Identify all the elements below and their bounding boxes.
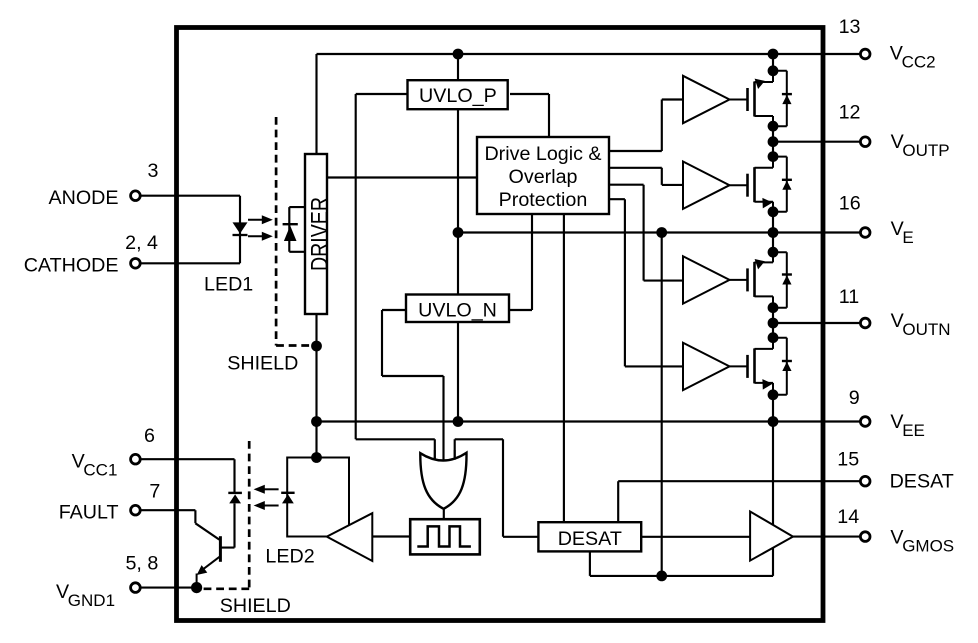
- svg-text:3: 3: [148, 160, 159, 182]
- svg-text:UVLO_P: UVLO_P: [419, 85, 497, 107]
- svg-text:DESAT: DESAT: [890, 470, 954, 492]
- UVLO_P box: [408, 80, 508, 109]
- wire UVLO_P right to Drive Logic top: [510, 94, 549, 137]
- svg-text:Protection: Protection: [499, 189, 588, 211]
- wire DESAT box top to DESAT pin: [618, 481, 859, 522]
- buffer B1: [683, 76, 730, 123]
- svg-text:ANODE: ANODE: [48, 187, 118, 209]
- wire ANODE loop with LED1: [141, 196, 240, 264]
- wire VEE rail y=421.5: [317, 420, 860, 422]
- DRIVER box: [305, 154, 333, 314]
- svg-text:5, 8: 5, 8: [125, 553, 158, 575]
- buffer B3: [683, 256, 730, 303]
- wire VE branch down x=661.7: [661, 233, 663, 576]
- svg-text:CATHODE: CATHODE: [24, 255, 119, 277]
- wire VE rail y=232.5: [458, 231, 860, 233]
- MOSFET Q3 (P-ch): [730, 252, 792, 308]
- svg-text:SHIELD: SHIELD: [220, 595, 291, 617]
- MOSFET Q1 (P-ch top): [730, 71, 792, 126]
- wire pulse box to LED2 buffer: [372, 535, 410, 537]
- svg-text:12: 12: [839, 101, 861, 123]
- wire VOUTP rail: [773, 141, 860, 143]
- svg-text:DRIVER: DRIVER: [306, 197, 334, 271]
- shield dashed line upper: [276, 117, 312, 346]
- svg-text:SHIELD: SHIELD: [227, 353, 298, 375]
- wire DESAT box to buffer5: [641, 536, 750, 538]
- buffer B5 DESAT output: [750, 512, 793, 561]
- svg-text:OUTN: OUTN: [902, 320, 950, 339]
- wire UVLO_N left to OR gate: [382, 310, 444, 461]
- UVLO_N box: [406, 295, 509, 323]
- photodiode D2 (left of shield, fault channel): [228, 493, 242, 504]
- wire DRIVER out to Drive Logic: [327, 176, 477, 178]
- buffer B2: [683, 162, 730, 209]
- wire DRIVER top stem: [315, 54, 317, 154]
- wire DESAT path to OR gate right input: [455, 439, 539, 537]
- wire Drive Logic bottom to UVLO_N right: [509, 214, 532, 310]
- wire VEE branch down x=773: [772, 422, 774, 576]
- svg-text:6: 6: [144, 425, 155, 447]
- LED2 driver buffer (points left): [327, 513, 373, 561]
- svg-text:2, 4: 2, 4: [125, 232, 158, 254]
- pin circles left: [131, 191, 141, 201]
- wire VOUTN rail: [773, 322, 860, 324]
- pulse generator box: [410, 519, 480, 554]
- wire UVLO vertical x=458: [457, 54, 459, 422]
- phototransistor Q5: [197, 536, 221, 587]
- wire DRIVER bottom stem to LED2 box: [315, 314, 317, 458]
- LED2 arrows (point left): [254, 485, 279, 510]
- svg-text:E: E: [902, 228, 913, 247]
- svg-text:15: 15: [837, 449, 859, 471]
- svg-text:16: 16: [839, 192, 861, 214]
- MOSFET Q2 (N-ch): [730, 157, 792, 212]
- LED2 diode on box left edge: [281, 493, 294, 504]
- wire VGND1: [141, 587, 197, 589]
- svg-text:UVLO_N: UVLO_N: [418, 299, 497, 321]
- svg-text:11: 11: [839, 286, 859, 308]
- svg-text:Overlap: Overlap: [509, 166, 578, 188]
- svg-text:GMOS: GMOS: [902, 536, 954, 555]
- IC outer border: [177, 28, 824, 621]
- svg-text:OUTP: OUTP: [902, 141, 949, 160]
- wire MOSFET stack spine: [772, 54, 774, 422]
- svg-text:EE: EE: [902, 421, 925, 440]
- wire VCC2 rail y=54: [317, 53, 860, 55]
- LED1 arrows: [248, 215, 273, 241]
- LED1 diode: [233, 222, 248, 235]
- wire VCC1 to photodiode2 and collector: [141, 459, 235, 547]
- wire OR output to pulse box: [443, 509, 445, 520]
- wire Drive Logic bottom to DESAT top: [563, 214, 565, 522]
- svg-text:7: 7: [149, 481, 160, 503]
- svg-text:FAULT: FAULT: [59, 502, 119, 524]
- LED2 feedback box: [287, 458, 349, 537]
- shield dashed line lower: [200, 441, 249, 589]
- svg-text:LED2: LED2: [265, 546, 314, 568]
- svg-text:CC1: CC1: [83, 461, 117, 480]
- photodiode 1 bracket at DRIVER: [289, 207, 304, 252]
- wire DESAT box bottom to rail: [590, 551, 773, 576]
- photodiode D1 (right of shield, at DRIVER): [283, 224, 298, 241]
- pin circles right: [131, 49, 870, 592]
- MOSFET Q4 (N-ch): [730, 338, 792, 395]
- wire Drive Logic out2 to buffer2: [609, 168, 683, 185]
- svg-text:13: 13: [839, 16, 861, 38]
- svg-text:GND1: GND1: [68, 591, 115, 610]
- wire UVLO_P left to OR gate: [356, 94, 435, 461]
- OR gate: [420, 448, 466, 509]
- DESAT box: [538, 522, 641, 551]
- wire buffer5 to VGMOS pin: [793, 536, 860, 538]
- svg-text:9: 9: [849, 387, 860, 409]
- wire Drive Logic out1 to buffer1: [609, 100, 683, 152]
- wire Drive Logic out4 to buffer4: [609, 199, 683, 366]
- wire FAULT to transistor base: [141, 510, 220, 539]
- wire Drive Logic out3 to buffer3: [609, 185, 683, 281]
- drive logic box U1: [477, 137, 609, 214]
- buffer B4: [683, 343, 730, 390]
- svg-text:DESAT: DESAT: [558, 528, 622, 550]
- svg-text:Drive Logic &: Drive Logic &: [484, 143, 601, 165]
- svg-text:LED1: LED1: [204, 274, 253, 296]
- svg-text:CC2: CC2: [902, 53, 936, 72]
- svg-text:14: 14: [837, 506, 859, 528]
